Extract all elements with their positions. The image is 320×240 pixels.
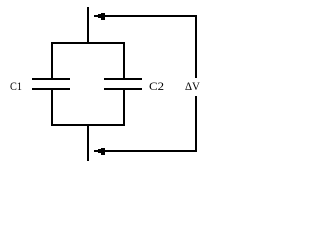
- wire: left upper lead: [51, 42, 53, 79]
- capacitor C1: [32, 78, 70, 90]
- ΔV bottom arrow: [94, 148, 197, 155]
- svg-text:C2: C2: [149, 79, 164, 93]
- svg-text:ΔV: ΔV: [185, 79, 200, 93]
- svg-text:C1: C1: [10, 79, 22, 93]
- label C2: [149, 79, 164, 93]
- wire: bottom rail: [51, 124, 125, 126]
- wire: right lower lead: [123, 89, 125, 126]
- ΔV top arrow: [94, 13, 197, 20]
- wire: top rail: [51, 42, 125, 44]
- wire: bottom lead stub: [87, 124, 89, 161]
- wire: top lead stub: [87, 7, 89, 43]
- label ΔV: [185, 79, 200, 93]
- wire: right upper lead: [123, 42, 125, 79]
- capacitor C2: [104, 78, 142, 90]
- ΔV bracket right vertical lower segment: [195, 96, 197, 152]
- wire: left lower lead: [51, 89, 53, 126]
- label C1: [10, 79, 22, 93]
- ΔV bracket right vertical upper segment: [195, 15, 197, 78]
